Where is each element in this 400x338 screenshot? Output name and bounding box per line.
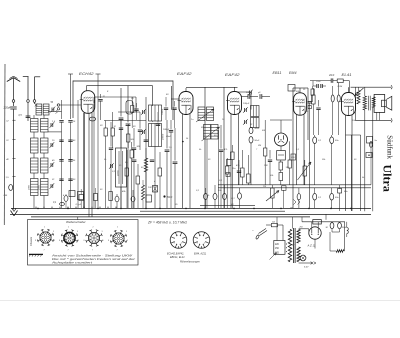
switch contact row [30,206,120,208]
svg-text:2000: 2000 [29,184,31,191]
cap osc small b [132,147,136,149]
speaker cone [386,96,392,110]
trimmer row1 [51,108,53,112]
extra mid caps b [156,123,160,125]
output transformer secondary [372,97,375,108]
cap 2nF [307,101,311,103]
heater wires to lamp [299,256,301,258]
svg-text:8: 8 [197,243,198,245]
cap osc 2 [144,139,149,141]
small box below [308,106,311,109]
voltage selector [274,241,285,255]
link row1 [48,111,62,113]
coil pair row3 b [41,138,49,153]
zigzag resistor under IF can [144,158,147,172]
top loop wire third [94,96,136,98]
capacitor 220pF antenna series [13,102,15,106]
heater line 6.3V [299,262,313,264]
detector box cluster [288,85,295,92]
wire right PS vertical [344,222,346,251]
left block vertical c [43,115,45,119]
tube V2 EAF42 [179,92,193,115]
rail detector right [218,187,371,189]
bus chassis line A [11,207,371,209]
svg-text:8: 8 [84,240,85,242]
svg-text:2: 2 [93,227,94,229]
cap 180pF left [169,130,173,132]
left block vertical a [34,104,36,109]
caps right of V3 top [247,94,249,99]
svg-text:Südfunk: Südfunk [386,135,394,159]
antenna terminals [12,100,15,103]
cap column2 C 30pF [68,178,72,180]
bus line B segment [140,210,285,212]
svg-text:7: 7 [92,250,93,252]
coil pair row2 a [31,119,39,133]
resistor left of V3 [226,166,229,174]
trimmer row5 [50,184,52,188]
capacitor on FM stub [26,115,31,117]
svg-text:A Z 11: A Z 11 [307,244,316,248]
junction X mark row1 [35,104,38,107]
wire IF can vertical [154,147,156,209]
input terminals [57,104,59,106]
wire osc link2 [118,111,140,113]
svg-text:10nF: 10nF [316,81,321,83]
svg-text:5: 5 [127,240,128,242]
svg-text:220pF: 220pF [3,106,12,110]
cap column2 C 40pF [68,139,72,141]
bleeder resistor [336,250,344,253]
svg-text:EAF42: EAF42 [225,72,240,77]
grid resistor 0.5M box [337,79,343,83]
resistor R mixer [136,176,140,184]
wire FM input down 2 [34,102,36,104]
svg-text:Achsplatte montiert: Achsplatte montiert [50,261,93,264]
tube V3 EAF42 [228,92,242,115]
cap column1 C 21pF [59,178,63,180]
cap det b [268,159,272,161]
extra mid caps a [150,159,154,161]
svg-text:3: 3 [77,231,78,233]
decoupling ovals upper [313,137,317,144]
filter choke [313,220,322,224]
power transformer core [292,228,294,263]
wire x218 down [218,130,220,208]
svg-text:Wellenschalter: Wellenschalter [66,220,87,224]
wire left block x94 [93,100,95,208]
svg-text:EBF11, EL41: EBF11, EL41 [170,256,185,259]
svg-text:5: 5 [78,240,79,242]
feedback resistor with arrow [357,91,360,105]
resistor below [158,168,162,176]
wire top rail over V3 [223,87,225,208]
trimmer arrow near V3 [249,91,251,95]
EM4 grid resistor box [277,151,286,161]
wire osc link [104,120,146,122]
antenna [7,78,14,82]
wire top rail over V2 [186,86,238,88]
cap cluster mid [138,129,142,131]
svg-text:3: 3 [102,231,103,233]
ground link electrolytics [332,231,340,233]
ground main arrow [11,211,15,216]
cap square right [338,189,342,194]
svg-text:7: 7 [68,250,69,252]
tube V5 EL41 [342,93,356,116]
svg-text:3: 3 [53,231,54,233]
chassis bar symbol [29,253,43,255]
coil pair row4 b [41,158,49,173]
cap column1 C 45pF [59,159,63,161]
tube V4 EB11 [294,93,307,115]
wire osc can down [120,187,122,208]
band components row left of IF1 [131,106,134,113]
svg-text:Röhrenfassungen: Röhrenfassungen [180,261,200,264]
dipole input stubs [23,76,29,78]
cap at V1 right [165,149,170,151]
resistor det a [264,148,267,156]
box right of EM4 [291,154,296,160]
mixer coupling caps [119,117,124,119]
speaker magnet [382,100,387,107]
socket S4 wafer [113,233,124,244]
bus line B segment 2 [200,205,255,207]
bottom small box a [69,191,75,197]
IF2 trimmers [244,108,246,112]
magic eye EM4 [275,133,288,146]
wire if2 down [206,139,208,208]
svg-text:ECH42: ECH42 [79,71,94,76]
power transformer LT secondary [297,247,300,262]
resistor 47k right [231,152,235,160]
svg-text:0,5M: 0,5M [338,86,343,88]
bus strip box f [153,186,158,193]
cap2 on OT lead [366,153,372,158]
cathode oval below V1 [89,117,95,121]
link row2 [48,120,71,122]
bus heater line D [31,216,310,218]
socket S2 wafer [64,232,75,243]
svg-text:ZF = 468 kHz u. 10,7 MHz: ZF = 468 kHz u. 10,7 MHz [147,220,187,224]
svg-text:25nF: 25nF [165,136,172,138]
cap 25nF mid [237,170,241,172]
V2 grid top wire [185,88,187,91]
svg-text:20000: 20000 [163,133,165,141]
wire left block x83 [83,113,85,208]
trimmer row4 [50,163,52,167]
osc cap above can [119,127,123,129]
svg-text:20nF: 20nF [328,75,335,77]
wire dial x98 [97,74,99,208]
mains plug [255,235,259,240]
resistor det c [288,160,291,168]
wire left block x89 [88,113,90,217]
electrolytic 30uF b [338,223,342,229]
decoupling caps under bus V2 [204,194,208,200]
top loop wire inner [87,85,153,87]
band components row right of IF1 [164,107,168,109]
selector switch arrow [270,253,277,260]
volume potentiometer [271,188,275,198]
bus strip oval a [64,196,68,202]
link row3 [48,131,62,133]
PS drops from rails [276,217,278,241]
V5 top lead [348,87,350,92]
socket S3 wafer [88,232,99,243]
svg-text:2: 2 [117,227,118,229]
svg-text:EM4, AZ11: EM4, AZ11 [194,252,207,255]
IF transformer can IF2a [251,106,260,117]
tube socket octal S6 [193,232,210,249]
cap column2 C 15pF [68,120,72,122]
svg-text:100pF: 100pF [243,103,250,105]
small caps cluster left of V2 [173,161,178,163]
AZ11 cathode down [314,239,316,248]
coil pair row2 b [41,119,49,133]
trimmer row2 [50,123,52,127]
capacitor 0.1uF at switch [60,202,65,205]
svg-text:Chassis: Chassis [29,236,33,246]
field coil arcs [347,228,349,234]
resistor osc c [130,150,133,158]
svg-text:8: 8 [59,240,60,242]
dial lamp [300,255,306,261]
resistor stack V3 [241,168,245,177]
V3 leads to bus [230,114,232,208]
svg-text:50nF: 50nF [255,140,260,142]
cap column2 C 65pF [68,159,72,161]
avc cap [316,107,320,109]
left block vertical b [33,115,35,119]
power transformer primary [288,229,291,261]
svg-text:180pF: 180pF [163,129,170,131]
svg-text:2000: 2000 [39,184,41,191]
tube V1 ECH42 [81,91,95,114]
svg-text:50nF: 50nF [167,197,173,199]
oscillator can box [116,148,127,187]
V2 leads to bus [182,114,184,208]
cap left of V3 [219,149,223,151]
speaker bottom rail [355,119,391,121]
tube socket rimlock S5 [170,232,187,249]
fuse 1A [271,224,277,227]
filter line [302,221,345,223]
wire OT top rail [351,86,391,88]
svg-text:7: 7 [44,250,45,252]
osc padder caps [132,159,137,161]
wire FM input down 1 [27,102,29,121]
rectifier AZ11 [309,227,321,239]
wire to EM4 [280,120,282,133]
cap 70pF right of V1 [98,99,102,101]
box left rail a [227,160,232,166]
bus strip box b [79,195,84,201]
IF trimmers [142,110,144,114]
osc can trimmer [110,164,112,168]
wire left block x78 [77,100,79,208]
svg-text:50nF: 50nF [255,128,260,130]
IF transformer can IF2b [251,118,260,128]
svg-text:10000: 10000 [162,108,164,115]
small box bottom mid [146,195,152,202]
resistor network osc a [104,128,107,136]
voice coil leads [376,112,378,120]
svg-text:2M: 2M [257,145,261,147]
page edge artifact left [3,64,6,225]
svg-text:6,3V: 6,3V [304,267,309,269]
cap column1 C 1.5pF [59,120,63,122]
svg-text:1: 1 [200,235,201,237]
speaker frame [374,95,385,113]
V5 leads [345,115,347,211]
junction dots on bus [37,208,39,210]
cap osc small a [109,147,113,149]
junction dot mid [182,141,184,143]
cap bottom osc [115,196,119,202]
V1 leads to bus [84,113,86,208]
power transformer HT secondary [297,229,300,243]
svg-text:EM4: EM4 [289,70,297,75]
svg-text:20000: 20000 [118,169,120,177]
svg-text:2: 2 [68,227,69,229]
coupling caps to V5 [331,95,334,102]
cap bottom osc2 [131,196,135,202]
wire x309 vertical [308,140,310,208]
wire right edge vertical [370,141,372,185]
resistor 50k vertical [311,89,314,95]
osc resistor above can [127,134,130,142]
output transformer core [368,96,370,111]
svg-text:1: 1 [177,235,178,237]
pickup jack symbols [294,200,297,203]
IF transformer after V2 lower pair [204,125,211,140]
electrolytic 30uF a [330,223,334,229]
wire x351 vertical [350,135,352,211]
cap column1 C 15pF [59,139,63,141]
OT leads down [364,110,366,211]
page edge artifact bottom [0,300,400,302]
cap 250pF on antenna line [9,185,13,191]
series caps 10nF [316,84,318,88]
socket S1 wafer [40,232,51,243]
svg-text:8: 8 [108,240,109,242]
decoupling oval pair x251 lower [249,137,253,143]
transformer HT top lead [299,228,309,230]
AZ11 left anode wire [308,229,310,233]
coil pair row3 a [31,138,39,153]
svg-text:4: 4 [181,243,182,245]
IF transformer can IF1a [149,105,162,121]
svg-text:5: 5 [54,240,55,242]
cap on OT lead [367,137,373,144]
bottom small box b [78,192,84,200]
rounded can right of V1 [126,101,133,115]
svg-text:8: 8 [174,243,175,245]
top loop wire outer [73,80,173,82]
AVC resistor [312,95,316,104]
V3 grid top wire [234,87,236,92]
trimmer row3 [50,143,52,147]
V4 leads [296,115,298,186]
wire x360 vertical [360,135,362,211]
output transformer primary [363,96,366,110]
cap 0.1uF below V3 [238,193,242,199]
rail AVC right [218,184,371,186]
svg-text:3: 3 [126,231,127,233]
cap 50nF on bus left [163,195,165,197]
resistor network osc b [111,128,114,136]
resistor stack below EM4 [279,162,283,170]
switch box frame [28,220,139,265]
svg-text:5: 5 [103,240,104,242]
wire osc vertical [145,97,147,208]
svg-text:EAF42: EAF42 [177,71,192,76]
wire top rail over V4 [293,87,308,89]
coil pair row5 b [41,179,49,196]
decoupling ovals lower [297,194,301,200]
bus strip tall rect d [109,192,113,201]
wire terminal to V1 [60,104,81,106]
coil pair row5 a 2000 [31,179,39,196]
component on rail under EM4 [282,186,287,191]
svg-text:~: ~ [252,228,254,232]
svg-text:7: 7 [117,250,118,252]
wire speaker left vertical [354,87,356,120]
svg-text:8: 8 [35,240,36,242]
bus strip zigzag e [142,185,145,200]
bus strip rect c [94,194,98,201]
svg-text:2: 2 [44,227,45,229]
svg-text:EL41: EL41 [342,72,352,77]
svg-text:250: 250 [3,195,8,197]
decoupling oval pair x251 upper [249,127,253,133]
svg-text:0,1µF: 0,1µF [76,204,82,206]
cap right edge [370,142,373,148]
coil pair row4 a [31,158,39,173]
box left rail b [226,173,230,177]
antenna coil pair row1 a [36,104,42,115]
wire antenna down [13,109,15,210]
svg-text:4: 4 [204,243,205,245]
tone pot [298,162,312,180]
svg-text:EB11: EB11 [273,70,282,75]
IF transformer can IF1b [149,124,162,147]
antenna coil pair row1 b [43,104,49,115]
bus heater line C [10,213,371,215]
IF transformer after V2 upper pair [198,107,205,121]
svg-text:Ultra: Ultra [381,165,395,192]
resistor R osc [125,168,129,176]
